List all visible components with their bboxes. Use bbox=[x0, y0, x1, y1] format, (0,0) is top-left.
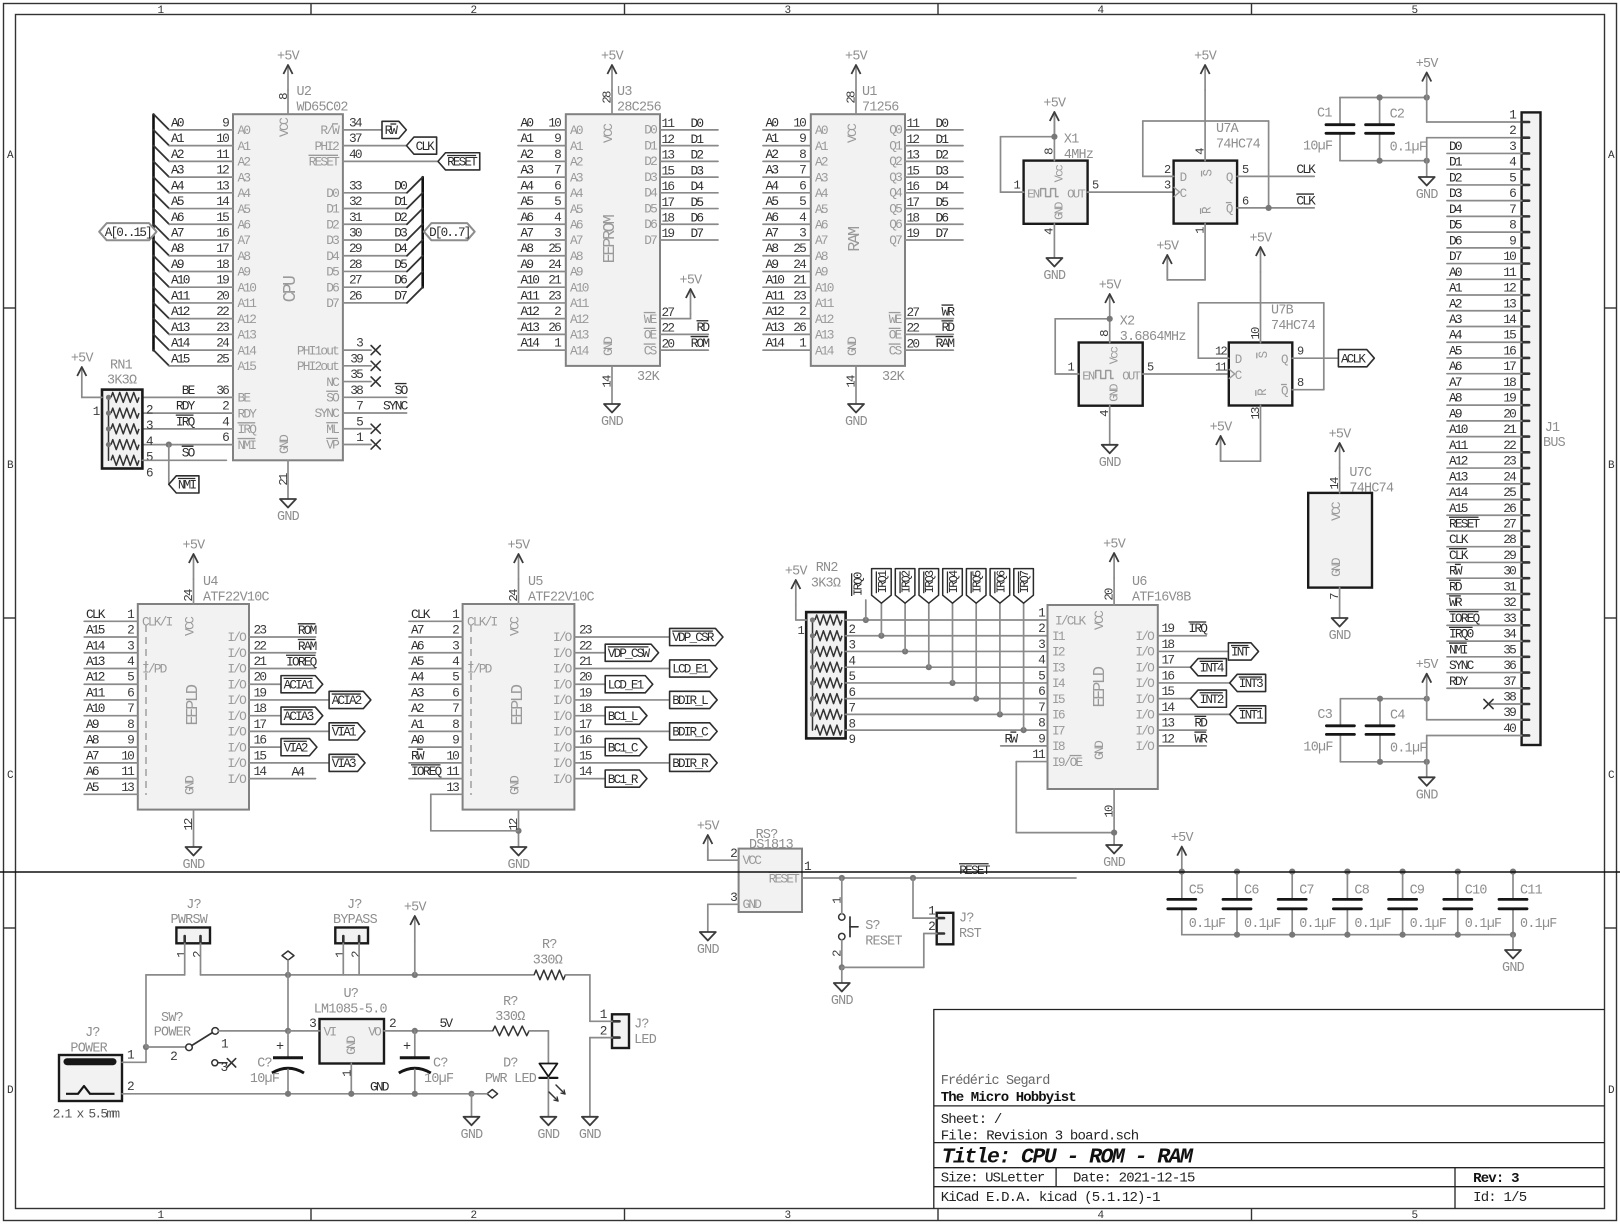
svg-text:+5V: +5V bbox=[1103, 538, 1126, 553]
svg-text:30: 30 bbox=[349, 225, 362, 240]
svg-text:RESET: RESET bbox=[447, 156, 478, 170]
wire pin 24 EEPROM A9 bbox=[518, 257, 583, 280]
svg-text:A2: A2 bbox=[815, 155, 828, 170]
svg-text:15: 15 bbox=[216, 210, 229, 225]
svg-text:The Micro Hobbyist: The Micro Hobbyist bbox=[941, 1090, 1077, 1106]
svg-text:I/O: I/O bbox=[1135, 739, 1155, 754]
svg-text:25: 25 bbox=[216, 351, 229, 366]
wire pin 5 U6 left bbox=[1038, 668, 1045, 683]
svg-text:GND: GND bbox=[1329, 557, 1344, 577]
wire +5V full-width rail bbox=[0, 871, 1620, 873]
wire pin 8 U4 A9 bbox=[84, 717, 138, 732]
resistor network RN1 3K3 bbox=[102, 359, 142, 469]
wire pin 19 U5 I/O BDIR_L bbox=[553, 685, 717, 708]
wire pin 14 J1 A3 bbox=[1447, 312, 1522, 327]
wire pin 20 EEPROM CS / ROM bbox=[644, 336, 710, 359]
svg-text:I/O: I/O bbox=[1135, 692, 1155, 707]
svg-text:22: 22 bbox=[907, 321, 920, 336]
svg-text:SYNC: SYNC bbox=[314, 406, 340, 421]
svg-text:A8: A8 bbox=[521, 241, 534, 256]
svg-text:GND: GND bbox=[845, 415, 868, 430]
svg-text:C2: C2 bbox=[1390, 108, 1405, 123]
node D[0..7] bus flag bbox=[424, 223, 475, 240]
regulator U? LM1085-5.0 bbox=[314, 987, 388, 1064]
wire pin 37 J1 RDY bbox=[1447, 674, 1522, 689]
svg-text:A6: A6 bbox=[1449, 359, 1462, 374]
wire pin 10 RAM A0 bbox=[763, 115, 828, 138]
svg-text:A13: A13 bbox=[521, 320, 540, 335]
wire RN2 pin 3 to U6 I1 bbox=[846, 633, 1048, 639]
svg-text:12: 12 bbox=[1215, 345, 1228, 359]
ground RAM pin 14 bbox=[844, 366, 867, 430]
svg-text:A10: A10 bbox=[238, 280, 257, 295]
svg-text:I9/OE: I9/OE bbox=[1052, 755, 1084, 770]
svg-text:12: 12 bbox=[662, 132, 675, 147]
svg-text:D0: D0 bbox=[394, 178, 407, 193]
svg-text:15: 15 bbox=[662, 163, 675, 178]
wire pin 30 J1 RW bbox=[1447, 564, 1522, 579]
wire pin 21 RAM A10 bbox=[763, 273, 834, 296]
svg-text:12: 12 bbox=[1162, 731, 1175, 746]
wire pin 2 CPU RDY bbox=[142, 399, 257, 422]
ground EEPROM pin 14 bbox=[600, 366, 623, 430]
svg-text:A8: A8 bbox=[570, 249, 583, 264]
svg-text:D6: D6 bbox=[691, 210, 704, 225]
svg-text:RAM: RAM bbox=[936, 336, 955, 351]
svg-text:13: 13 bbox=[1503, 296, 1516, 311]
svg-text:IRQ1: IRQ1 bbox=[876, 570, 890, 593]
power +5V U7B pin 13 R bbox=[1210, 406, 1263, 462]
wire pin 17 U6 I/O INT4 bbox=[1135, 653, 1226, 676]
svg-text:A10: A10 bbox=[1449, 422, 1468, 437]
svg-text:26: 26 bbox=[548, 320, 561, 335]
connector J? POWER barrel jack bbox=[53, 1026, 122, 1122]
wire pin 3 U6 left bbox=[1038, 637, 1045, 652]
svg-text:21: 21 bbox=[277, 473, 291, 486]
svg-text:23: 23 bbox=[1503, 454, 1516, 469]
wire pin 6 EEPROM A4 bbox=[518, 178, 584, 201]
svg-text:A0: A0 bbox=[1449, 265, 1462, 280]
svg-text:EN: EN bbox=[1082, 370, 1095, 384]
svg-text:33: 33 bbox=[1503, 611, 1516, 626]
svg-text:A9: A9 bbox=[766, 257, 779, 272]
EEPROM U3 28C256 body bbox=[566, 114, 660, 366]
svg-text:INT3: INT3 bbox=[1239, 677, 1263, 691]
resistor R? 330 5V LED bbox=[493, 995, 549, 1064]
svg-text:RESET: RESET bbox=[865, 934, 902, 949]
svg-text:DS1813: DS1813 bbox=[749, 838, 794, 853]
svg-text:20: 20 bbox=[907, 336, 920, 351]
svg-text:10: 10 bbox=[793, 115, 806, 130]
svg-text:D2: D2 bbox=[394, 210, 407, 225]
svg-text:A8: A8 bbox=[86, 733, 99, 748]
svg-text:VIA1: VIA1 bbox=[332, 726, 356, 740]
wire pin 16 U6 I/O INT3 bbox=[1135, 668, 1265, 691]
svg-text:15: 15 bbox=[254, 748, 267, 763]
svg-text:C9: C9 bbox=[1410, 884, 1425, 899]
svg-text:X2: X2 bbox=[1120, 315, 1135, 330]
svg-text:PHI2: PHI2 bbox=[314, 139, 339, 154]
power +5V U4 pin 24 bbox=[182, 539, 205, 605]
wire U7A Q- pin 6 CLK- bbox=[1237, 193, 1316, 211]
power +5V U7A pin 4 S bbox=[1193, 50, 1216, 161]
wire pin 7 U6 left bbox=[1038, 700, 1045, 715]
svg-text:POWER: POWER bbox=[70, 1042, 107, 1057]
svg-text:J?: J? bbox=[186, 898, 201, 913]
svg-text:A3: A3 bbox=[815, 170, 828, 185]
svg-text:IRQ4: IRQ4 bbox=[947, 570, 961, 593]
svg-text:D0: D0 bbox=[1449, 139, 1462, 154]
svg-text:I/O: I/O bbox=[1135, 645, 1155, 660]
svg-text:U7C: U7C bbox=[1349, 466, 1372, 481]
wire pin 40 J1 GND bbox=[1427, 721, 1522, 736]
capacitor C11 0.1uF bbox=[1499, 869, 1557, 935]
svg-text:40: 40 bbox=[1503, 721, 1516, 736]
svg-text:A11: A11 bbox=[86, 685, 106, 700]
wire pin 33 CPU D0 bbox=[326, 177, 422, 201]
svg-text:+5V: +5V bbox=[1250, 232, 1273, 247]
svg-text:15: 15 bbox=[907, 163, 920, 178]
svg-text:32K: 32K bbox=[637, 370, 661, 385]
svg-text:I/O: I/O bbox=[553, 725, 573, 740]
svg-text:R?: R? bbox=[503, 995, 518, 1010]
wire pin 17 EEPROM D5 bbox=[644, 195, 718, 217]
svg-text:+5V: +5V bbox=[785, 565, 808, 580]
svg-text:A7: A7 bbox=[521, 226, 534, 241]
svg-text:D2: D2 bbox=[936, 148, 949, 163]
svg-text:0.1µF: 0.1µF bbox=[1354, 917, 1391, 932]
capacitor C8 0.1uF bbox=[1333, 869, 1391, 935]
svg-text:ATF22V10C: ATF22V10C bbox=[528, 591, 595, 606]
svg-text:A12: A12 bbox=[521, 304, 540, 319]
svg-text:I/O: I/O bbox=[553, 756, 573, 771]
svg-text:A8: A8 bbox=[171, 241, 184, 256]
svg-text:10: 10 bbox=[548, 115, 561, 130]
wire pin 3 U4 A14 bbox=[84, 638, 138, 653]
svg-text:13: 13 bbox=[1249, 407, 1263, 420]
svg-text:D2: D2 bbox=[644, 154, 657, 169]
wire pin 16 EEPROM D4 bbox=[644, 179, 718, 201]
wire pin 10 EEPROM A0 bbox=[518, 115, 583, 138]
svg-text:Id: 1/5: Id: 1/5 bbox=[1473, 1190, 1527, 1206]
wire pin 33 J1 IOREQ bbox=[1447, 611, 1522, 626]
wire pin 21 J1 A10 bbox=[1447, 422, 1522, 437]
wire pin 8 J1 D5 bbox=[1447, 218, 1522, 233]
capacitor C4 0.1uF bbox=[1366, 699, 1427, 762]
wire pin 18 U4 I/O ACIA3 bbox=[227, 701, 322, 724]
svg-text:D2: D2 bbox=[326, 217, 339, 232]
wire pin 13 U5 to GND bbox=[431, 780, 519, 831]
svg-text:D0: D0 bbox=[691, 116, 704, 131]
svg-text:Rev: 3: Rev: 3 bbox=[1473, 1171, 1519, 1187]
svg-text:+5V: +5V bbox=[1043, 97, 1066, 112]
svg-text:KiCad E.D.A. kicad (5.1.12)-1: KiCad E.D.A. kicad (5.1.12)-1 bbox=[941, 1190, 1160, 1206]
svg-text:ACIA1: ACIA1 bbox=[284, 678, 314, 692]
IC RS? DS1813 body bbox=[739, 849, 802, 912]
power +5V U7C pin 14 bbox=[1328, 428, 1351, 493]
svg-text:VCC: VCC bbox=[1092, 610, 1107, 630]
svg-text:NMI: NMI bbox=[1449, 642, 1468, 657]
svg-text:330Ω: 330Ω bbox=[495, 1010, 525, 1025]
wire pin 20 U5 I/O LCD_E1 bbox=[553, 670, 653, 693]
svg-text:D6: D6 bbox=[394, 273, 407, 288]
wire pin 21 EEPROM A10 bbox=[518, 273, 589, 296]
svg-text:A15: A15 bbox=[86, 623, 105, 638]
svg-text:17: 17 bbox=[1503, 359, 1516, 374]
label U1 71256 bbox=[862, 85, 906, 385]
wire pin 9 J1 D6 bbox=[1447, 233, 1522, 248]
ground J? LED pin 2 bbox=[579, 1117, 602, 1143]
wire X1 feedback pin 1 EN bbox=[1001, 134, 1058, 193]
svg-text:GND: GND bbox=[1502, 961, 1525, 976]
svg-text:0.1µF: 0.1µF bbox=[1410, 917, 1447, 932]
wire pin 17 RAM Q5 bbox=[889, 195, 963, 217]
wire pin 19 CPU A10 bbox=[154, 271, 257, 295]
node A[0..15] bus flag bbox=[99, 223, 156, 240]
ground C3 C4 bbox=[1416, 777, 1439, 803]
svg-text:A15: A15 bbox=[1449, 501, 1468, 516]
power +5V CPU pin 8 bbox=[277, 50, 300, 115]
svg-text:18: 18 bbox=[1162, 637, 1175, 652]
svg-text:27: 27 bbox=[349, 273, 362, 288]
wire pin 13 U6 I/O RD bbox=[1135, 716, 1208, 739]
wire GND rail C5..C11 bbox=[1182, 932, 1516, 950]
svg-text:I2: I2 bbox=[1052, 645, 1065, 660]
svg-text:10: 10 bbox=[446, 748, 459, 763]
svg-text:X1: X1 bbox=[1064, 133, 1079, 148]
svg-text:A13: A13 bbox=[86, 654, 105, 669]
svg-text:13: 13 bbox=[1162, 716, 1175, 731]
svg-text:74HC74: 74HC74 bbox=[1216, 137, 1261, 152]
svg-text:20: 20 bbox=[579, 670, 592, 685]
svg-text:24: 24 bbox=[507, 589, 521, 602]
svg-text:22: 22 bbox=[254, 638, 267, 653]
svg-text:Sheet: /: Sheet: / bbox=[941, 1112, 1002, 1128]
wire pin 8 U5 A1 bbox=[409, 717, 463, 732]
svg-text:A6: A6 bbox=[815, 217, 828, 232]
svg-text:0.1µF: 0.1µF bbox=[1390, 141, 1427, 156]
svg-text:+5V: +5V bbox=[277, 50, 300, 65]
svg-text:32K: 32K bbox=[882, 370, 906, 385]
svg-text:U6: U6 bbox=[1132, 575, 1147, 590]
wire pin 11 RAM Q0 bbox=[889, 116, 963, 138]
switch S? RESET bbox=[830, 878, 902, 967]
svg-text:+5V: +5V bbox=[845, 50, 868, 65]
connector J? LED bbox=[590, 1007, 657, 1117]
svg-text:10µF: 10µF bbox=[1303, 139, 1333, 154]
wire pin 38 CPU SO bbox=[326, 383, 408, 406]
svg-text:13: 13 bbox=[662, 148, 675, 163]
wire RN2 pin 3 bbox=[849, 639, 856, 653]
flip-flop U7A 74HC74 bbox=[1174, 122, 1261, 224]
svg-text:D5: D5 bbox=[691, 195, 704, 210]
wire pin 32 J1 WR bbox=[1447, 595, 1522, 610]
wire pin 36 J1 SYNC bbox=[1447, 658, 1522, 673]
wire pin 11 CPU A2 bbox=[154, 146, 251, 170]
svg-text:EEPLD: EEPLD bbox=[1091, 666, 1110, 707]
wire pin 9 CPU A0 bbox=[154, 114, 251, 138]
svg-text:IRQ6: IRQ6 bbox=[994, 570, 1008, 593]
wire pin 10 CPU A1 bbox=[154, 130, 252, 154]
svg-text:I5: I5 bbox=[1052, 692, 1065, 707]
svg-text:RDY: RDY bbox=[1449, 674, 1469, 689]
svg-text:A3: A3 bbox=[570, 170, 583, 185]
wire pin 13 RAM Q2 bbox=[889, 148, 963, 170]
wire pin 1 U4 CLK bbox=[84, 607, 138, 622]
title block frame bbox=[934, 1010, 1605, 1209]
svg-text:GND: GND bbox=[1103, 856, 1126, 871]
svg-text:J?: J? bbox=[347, 898, 362, 913]
svg-text:IOREQ: IOREQ bbox=[1449, 611, 1481, 626]
svg-text:I/O: I/O bbox=[227, 772, 247, 787]
power +5V regulator output rail bbox=[404, 901, 427, 975]
wire pin 8 U6 left bbox=[1038, 716, 1045, 731]
svg-text:C8: C8 bbox=[1354, 884, 1369, 899]
svg-text:J?: J? bbox=[85, 1026, 100, 1041]
svg-text:19: 19 bbox=[254, 685, 267, 700]
svg-text:14: 14 bbox=[844, 375, 858, 388]
oscillator X2 3.6864MHz bbox=[1079, 315, 1186, 406]
wire pin 26 J1 A15 bbox=[1447, 501, 1522, 516]
wire pin 6 J1 D3 bbox=[1447, 186, 1522, 201]
svg-text:+5V: +5V bbox=[1156, 240, 1179, 255]
svg-text:0.1µF: 0.1µF bbox=[1189, 917, 1226, 932]
svg-text:VIA3: VIA3 bbox=[332, 757, 356, 771]
svg-text:VCC: VCC bbox=[601, 123, 616, 143]
svg-text:37: 37 bbox=[349, 131, 362, 146]
svg-text:VIA2: VIA2 bbox=[284, 741, 308, 755]
svg-text:25: 25 bbox=[793, 241, 806, 256]
wire pin 20 CPU A11 bbox=[154, 287, 258, 311]
power +5V decoupling rail bbox=[1171, 831, 1194, 872]
svg-text:SYNC: SYNC bbox=[383, 399, 409, 414]
svg-text:A14: A14 bbox=[815, 343, 835, 358]
svg-text:GND: GND bbox=[1053, 202, 1067, 220]
svg-text:37: 37 bbox=[1503, 674, 1516, 689]
svg-text:CLK/I: CLK/I bbox=[142, 615, 173, 630]
RAM U1 71256 body bbox=[811, 114, 905, 366]
wire pin 1 RAM A14 bbox=[763, 336, 835, 359]
svg-text:I/O: I/O bbox=[1135, 660, 1155, 675]
capacitor C6 0.1uF bbox=[1223, 869, 1281, 935]
wire pin 16 U5 I/O BC1_C bbox=[553, 733, 647, 756]
svg-text:A8: A8 bbox=[815, 249, 828, 264]
wire RN2 pin 4 to U6 I2 bbox=[846, 648, 1048, 654]
svg-text:28: 28 bbox=[844, 91, 858, 104]
wire pin 12 EEPROM D1 bbox=[644, 132, 718, 154]
svg-text:17: 17 bbox=[907, 195, 920, 210]
wire GND rail C1 C2 to J1 pin 2 bbox=[1340, 138, 1522, 177]
svg-text:22: 22 bbox=[662, 321, 675, 336]
svg-text:A0: A0 bbox=[171, 115, 184, 130]
ground U5 pin 12 bbox=[507, 810, 530, 873]
svg-text:A7: A7 bbox=[766, 226, 779, 241]
svg-text:A9: A9 bbox=[815, 265, 828, 280]
wire pin 27 RAM WE / WR bbox=[889, 304, 956, 327]
wire U7B D feedback loop bbox=[1198, 303, 1324, 390]
power +5V EEPROM pin 28 bbox=[600, 50, 623, 115]
svg-text:0.1µF: 0.1µF bbox=[1520, 917, 1557, 932]
wire pin 1 EEPROM A14 bbox=[518, 336, 590, 359]
svg-text:I7: I7 bbox=[1052, 723, 1065, 738]
svg-text:IRQ: IRQ bbox=[238, 422, 258, 437]
connector J? RST bbox=[842, 878, 982, 967]
wire pin 9 U6 left bbox=[1038, 731, 1045, 746]
svg-text:VCC: VCC bbox=[1329, 501, 1344, 521]
svg-text:32: 32 bbox=[349, 194, 362, 209]
wire pin 3 RAM A7 bbox=[763, 226, 828, 249]
LED D? PWR LED bbox=[485, 1057, 565, 1117]
svg-text:I/PD: I/PD bbox=[142, 662, 168, 677]
wire pin 4 CPU IRQ bbox=[142, 414, 257, 437]
svg-text:IRQ3: IRQ3 bbox=[923, 570, 937, 593]
svg-text:IOREQ: IOREQ bbox=[411, 764, 443, 779]
svg-text:GND: GND bbox=[277, 434, 292, 454]
EEPLD U4 ATF22V10C body bbox=[138, 604, 249, 810]
power +5V RN2 pin 1 bbox=[785, 565, 808, 639]
svg-text:C4: C4 bbox=[1390, 709, 1405, 724]
svg-text:Vcc: Vcc bbox=[1108, 346, 1122, 364]
wire pin 13 U4 A5 bbox=[84, 780, 138, 795]
capacitor C9 0.1uF bbox=[1389, 869, 1447, 935]
label U3 28C256 bbox=[617, 85, 662, 385]
svg-text:NMI: NMI bbox=[178, 479, 197, 493]
svg-text:A7: A7 bbox=[1449, 375, 1462, 390]
wire pin 35 CPU NC bbox=[326, 367, 380, 390]
svg-text:ROM: ROM bbox=[691, 336, 710, 351]
svg-text:74HC74: 74HC74 bbox=[1271, 319, 1316, 334]
ground U4 pin 12 bbox=[182, 810, 205, 873]
wire pin 22 U5 I/O VDP_CSW bbox=[553, 638, 659, 661]
svg-text:LED: LED bbox=[634, 1033, 657, 1048]
svg-text:LCD_E1: LCD_E1 bbox=[608, 678, 644, 692]
svg-text:I3: I3 bbox=[1052, 660, 1065, 675]
svg-text:I/O: I/O bbox=[553, 677, 573, 692]
svg-text:40: 40 bbox=[349, 147, 362, 162]
svg-text:CLK: CLK bbox=[1296, 193, 1316, 208]
svg-text:330Ω: 330Ω bbox=[533, 954, 563, 969]
svg-text:U?: U? bbox=[344, 987, 359, 1002]
svg-text:GND: GND bbox=[1416, 788, 1439, 803]
svg-text:RAM: RAM bbox=[846, 226, 865, 252]
wire pin 20 J1 A9 bbox=[1447, 406, 1522, 421]
svg-text:A14: A14 bbox=[171, 336, 191, 351]
svg-text:C5: C5 bbox=[1189, 884, 1204, 899]
svg-text:Q0: Q0 bbox=[889, 123, 902, 138]
svg-text:A11: A11 bbox=[1449, 438, 1469, 453]
title block texts bbox=[941, 1074, 1527, 1206]
svg-text:23: 23 bbox=[793, 288, 806, 303]
op-amp U2 CPU WD65C02 body bbox=[233, 114, 343, 460]
svg-text:+5V: +5V bbox=[1194, 50, 1217, 65]
svg-text:I/O: I/O bbox=[553, 740, 573, 755]
svg-text:10: 10 bbox=[1249, 327, 1263, 340]
wire pin 20 RAM CS / RAM bbox=[889, 336, 955, 359]
svg-text:CLK: CLK bbox=[1296, 162, 1316, 177]
svg-text:I/O: I/O bbox=[553, 709, 573, 724]
svg-text:16: 16 bbox=[1162, 668, 1175, 683]
svg-text:12: 12 bbox=[216, 163, 229, 178]
svg-text:A3: A3 bbox=[521, 163, 534, 178]
svg-text:A5: A5 bbox=[171, 194, 184, 209]
power +5V X1 pin 8 bbox=[1042, 97, 1066, 161]
svg-text:PHI2out: PHI2out bbox=[297, 359, 339, 374]
svg-text:INT: INT bbox=[1231, 646, 1251, 660]
svg-text:GND: GND bbox=[579, 1128, 602, 1143]
svg-text:+5V: +5V bbox=[1416, 57, 1439, 72]
svg-text:RAM: RAM bbox=[298, 639, 317, 654]
wire pin 1 U5 CLK bbox=[409, 607, 463, 622]
